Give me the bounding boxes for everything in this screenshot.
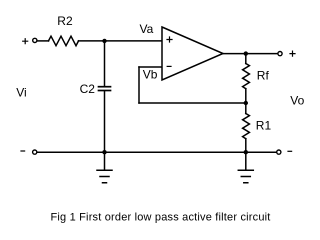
node D junction dot (C2 ground) xyxy=(102,150,106,154)
wire node B down to R1 xyxy=(245,103,247,114)
wire bottom rail xyxy=(37,151,277,153)
polarity + right xyxy=(290,51,295,56)
wire op-amp output to node C xyxy=(223,53,277,55)
polarity - right xyxy=(288,150,292,152)
wire from input terminal to R2 xyxy=(37,40,48,42)
wire R2 to node A and to op-amp + input xyxy=(79,40,162,42)
node B junction dot xyxy=(244,101,248,105)
svg-text:Rf: Rf xyxy=(257,69,270,83)
resistor R1 xyxy=(243,114,250,139)
wire op-amp inverting input to Vb corner xyxy=(139,66,162,68)
resistor R2 xyxy=(49,36,79,46)
wire node A down to C2 xyxy=(104,41,106,86)
wire feedback bottom to node B xyxy=(139,102,246,104)
capacitor C2 plates xyxy=(99,86,111,88)
svg-text:Vo: Vo xyxy=(290,94,304,108)
polarity + left xyxy=(23,39,28,44)
wire node C down to Rf xyxy=(245,54,247,64)
wire Vb corner down xyxy=(138,67,140,103)
terminal - input bottom (open circle) xyxy=(33,150,37,154)
wire Rf to node B xyxy=(245,89,247,103)
wire C2 to ground rail xyxy=(104,91,106,152)
polarity - left xyxy=(21,150,25,152)
resistor Rf xyxy=(243,64,250,89)
svg-text:C2: C2 xyxy=(80,82,96,96)
terminal + input top (open circle) xyxy=(33,38,37,42)
ground (left) xyxy=(97,152,112,183)
op-amp - input marker xyxy=(167,65,171,67)
op-amp U1 triangle xyxy=(162,27,223,80)
op-amp + input marker xyxy=(167,37,172,42)
terminal + output (open circle) xyxy=(278,52,282,56)
terminal - output bottom (open circle) xyxy=(277,150,281,154)
svg-text:Vb: Vb xyxy=(143,68,158,82)
svg-text:R2: R2 xyxy=(57,14,73,28)
svg-text:Fig 1 First order low pass act: Fig 1 First order low pass active filter… xyxy=(51,212,271,224)
node E junction dot (R1 ground) xyxy=(244,150,248,154)
svg-text:Vi: Vi xyxy=(16,86,26,100)
svg-text:Va: Va xyxy=(140,22,154,36)
svg-text:R1: R1 xyxy=(256,119,272,133)
node C junction dot xyxy=(244,51,248,55)
wire R1 to ground rail xyxy=(245,139,247,153)
ground (right) xyxy=(238,152,253,183)
node A junction dot xyxy=(102,39,106,43)
